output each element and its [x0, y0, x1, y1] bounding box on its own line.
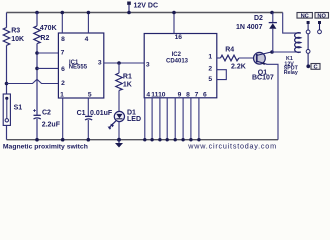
NO contact post	[318, 21, 322, 34]
node pin7 junction	[35, 51, 39, 55]
NC contact post	[306, 21, 310, 34]
wire pin 16 stub	[173, 13, 175, 34]
wire left rail upper	[6, 13, 8, 28]
ground symbol	[115, 140, 123, 148]
svg-text:6: 6	[203, 92, 207, 99]
node pin3 R1 junction	[117, 61, 121, 65]
wire C1 to ground	[87, 120, 89, 140]
LED D1	[108, 109, 141, 129]
svg-text:470K: 470K	[40, 25, 57, 32]
wire pins 2-5 feedback loop	[217, 70, 227, 80]
svg-text:10K: 10K	[11, 36, 24, 43]
IC2 CD4013 box	[144, 34, 217, 98]
svg-text:7: 7	[195, 92, 199, 99]
svg-text:C1: C1	[77, 110, 86, 117]
wire C2 to ground rail	[36, 119, 38, 140]
svg-text:BC107: BC107	[252, 75, 274, 82]
node collector junction	[270, 50, 274, 54]
svg-text:1N 4007: 1N 4007	[236, 24, 263, 31]
wire rail corner to coil top	[283, 13, 301, 34]
wire LED to ground	[118, 122, 120, 140]
svg-text:NE555: NE555	[69, 65, 88, 71]
wire pin 4 stub	[87, 13, 89, 34]
wire D2 cathode lead	[272, 13, 274, 23]
wire pin 1 stub to ground	[62, 98, 64, 140]
relay armature	[306, 34, 310, 68]
capacitor C1	[77, 110, 113, 120]
svg-text:www.circuitstoday.com: www.circuitstoday.com	[187, 142, 277, 151]
node IC2 ground dots	[143, 138, 200, 141]
svg-text:2.2uF: 2.2uF	[42, 121, 61, 128]
node C1 ground	[87, 138, 91, 142]
svg-text:C: C	[313, 65, 317, 71]
wire pin 2 with hop	[7, 79, 59, 83]
resistor R3	[3, 28, 24, 46]
svg-text:8: 8	[61, 36, 65, 43]
svg-text:1K: 1K	[123, 81, 132, 88]
C terminal box	[311, 64, 320, 71]
svg-text:R1: R1	[123, 74, 132, 81]
diode D2	[236, 15, 277, 31]
svg-text:NC: NC	[301, 13, 309, 19]
wire collector to coil bottom	[272, 51, 301, 53]
svg-text:4: 4	[146, 92, 150, 99]
NC terminal box	[297, 13, 312, 20]
svg-text:IC2: IC2	[172, 52, 182, 58]
wire R2 stub	[36, 13, 38, 26]
12V DC supply terminal	[127, 2, 158, 15]
wire pin 5 stub	[87, 98, 89, 116]
svg-text:Relay: Relay	[284, 70, 298, 76]
svg-text:3: 3	[146, 62, 150, 69]
wire bottom ground rail	[7, 139, 279, 141]
svg-text:3: 3	[98, 60, 102, 67]
capacitor C2	[33, 109, 61, 128]
node pin 16 rail	[172, 11, 176, 15]
node C2 ground	[35, 138, 39, 142]
svg-text:S1: S1	[14, 104, 23, 111]
svg-text:2: 2	[61, 80, 65, 87]
svg-text:5: 5	[88, 92, 92, 99]
resistor R4	[221, 46, 246, 70]
wire left rail mid	[6, 45, 8, 94]
wire left rail lower	[6, 125, 8, 139]
svg-text:R3: R3	[11, 28, 20, 35]
svg-text:5: 5	[208, 76, 212, 83]
node LED ground	[117, 138, 121, 142]
transistor Q1	[252, 52, 274, 82]
svg-text:CD4013: CD4013	[166, 58, 189, 64]
wire IC2 pin1 to R4	[217, 57, 221, 59]
wire pin 8 stub	[61, 13, 63, 34]
resistor R1	[116, 73, 132, 90]
wire top 12V rail	[7, 12, 283, 14]
svg-text:2.2K: 2.2K	[231, 64, 246, 71]
relay coil K1	[284, 33, 301, 76]
svg-text:LED: LED	[127, 116, 141, 123]
node pin 4 rail	[87, 11, 91, 15]
svg-text:Magnetic proximity switch: Magnetic proximity switch	[3, 143, 88, 150]
node left rail pin2 tap	[5, 82, 9, 86]
svg-text:7: 7	[61, 49, 65, 56]
reed switch S1	[3, 94, 22, 125]
svg-text:D2: D2	[254, 15, 263, 22]
NO terminal box	[315, 13, 329, 20]
node D2 rail	[270, 11, 274, 15]
wire pin 3 to IC2 pin 3	[104, 62, 144, 64]
svg-text:8: 8	[186, 92, 190, 99]
svg-text:0.01uF: 0.01uF	[90, 110, 113, 117]
wire R2 to C2 column	[36, 44, 38, 116]
svg-text:C2: C2	[42, 110, 51, 117]
svg-text:12V DC: 12V DC	[134, 2, 159, 9]
wire pin 7	[37, 52, 58, 54]
svg-text:NO: NO	[317, 13, 326, 19]
svg-text:10: 10	[158, 92, 166, 99]
svg-text:9: 9	[178, 92, 182, 99]
wire pin 6	[37, 67, 58, 69]
svg-text:6: 6	[61, 66, 65, 73]
node pin 8 rail	[61, 11, 65, 15]
IC U1 IC1 NE555 box	[58, 33, 103, 98]
node R2 top	[35, 11, 39, 15]
svg-text:1: 1	[208, 53, 212, 60]
wire IC2 ground stubs	[145, 98, 199, 140]
svg-text:4: 4	[85, 36, 89, 43]
svg-text:R4: R4	[225, 46, 234, 53]
resistor R2	[34, 25, 57, 43]
wire D2 anode lead	[272, 29, 274, 52]
wire junction to R1	[118, 63, 120, 73]
svg-text:R2: R2	[40, 35, 49, 42]
wire R1 to LED	[118, 90, 120, 111]
node pin6 junction	[35, 67, 39, 71]
wire R4 to base	[239, 57, 257, 59]
svg-text:1: 1	[60, 92, 64, 99]
wire emitter to ground rail	[267, 64, 278, 139]
node pin 1 ground	[61, 138, 65, 142]
svg-text:16: 16	[175, 34, 183, 41]
svg-text:2: 2	[208, 66, 212, 73]
